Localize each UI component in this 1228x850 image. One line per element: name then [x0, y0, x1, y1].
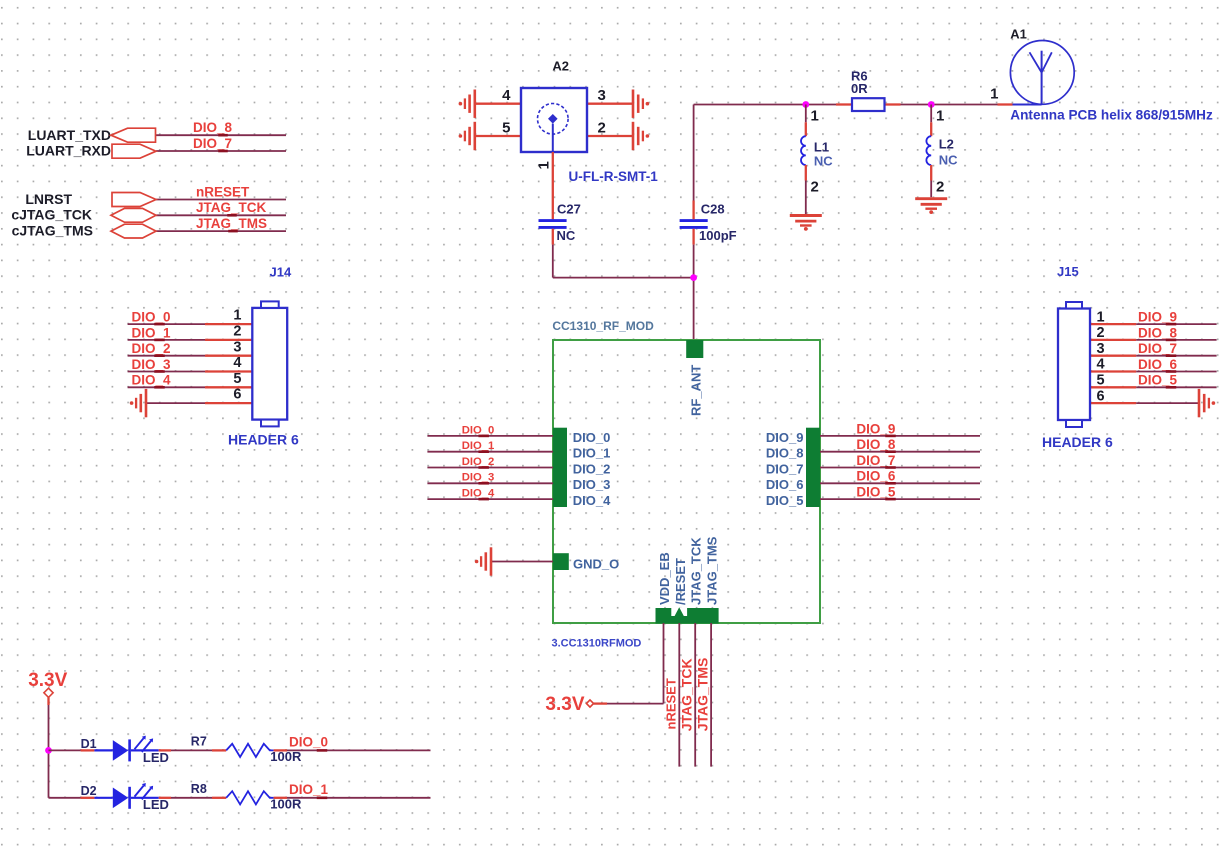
svg-text:DIO_0: DIO_0 — [573, 430, 611, 445]
svg-text:5: 5 — [502, 120, 510, 137]
svg-text:5: 5 — [233, 371, 241, 387]
svg-text:DIO_3: DIO_3 — [462, 472, 495, 484]
svg-text:U-FL-R-SMT-1: U-FL-R-SMT-1 — [569, 169, 659, 184]
svg-text:NC: NC — [557, 228, 576, 243]
svg-text:DIO_9: DIO_9 — [856, 421, 895, 436]
svg-text:HEADER 6: HEADER 6 — [1042, 434, 1113, 450]
svg-text:JTAG_TMS: JTAG_TMS — [196, 216, 267, 231]
svg-text:RF_ANT: RF_ANT — [689, 365, 704, 416]
svg-text:LUART_RXD: LUART_RXD — [26, 143, 111, 159]
svg-text:NC: NC — [814, 153, 833, 168]
svg-text:100R: 100R — [270, 749, 302, 764]
svg-text:R7: R7 — [191, 735, 207, 749]
svg-text:1: 1 — [536, 161, 553, 169]
svg-text:JTAG_TCK: JTAG_TCK — [678, 658, 694, 731]
svg-text:D2: D2 — [81, 784, 97, 798]
svg-text:DIO_7: DIO_7 — [766, 461, 804, 476]
svg-text:DIO_7: DIO_7 — [1138, 341, 1177, 356]
svg-text:cJTAG_TMS: cJTAG_TMS — [12, 223, 93, 239]
svg-text:3: 3 — [598, 87, 606, 104]
svg-text:J15: J15 — [1057, 264, 1079, 279]
svg-text:DIO_3: DIO_3 — [573, 477, 611, 492]
svg-text:/RESET: /RESET — [673, 558, 688, 605]
svg-text:cJTAG_TCK: cJTAG_TCK — [11, 207, 92, 223]
svg-text:JTAG_TMS: JTAG_TMS — [705, 536, 720, 605]
svg-text:L1: L1 — [814, 139, 829, 154]
svg-text:LNRST: LNRST — [25, 191, 72, 207]
svg-text:GND_O: GND_O — [573, 556, 619, 571]
svg-text:2: 2 — [598, 120, 606, 137]
svg-text:DIO_5: DIO_5 — [1138, 373, 1178, 388]
svg-text:DIO_0: DIO_0 — [289, 735, 328, 750]
svg-text:DIO_5: DIO_5 — [766, 493, 804, 508]
svg-text:4: 4 — [1097, 357, 1105, 373]
svg-text:DIO_4: DIO_4 — [462, 488, 495, 500]
svg-text:DIO_7: DIO_7 — [856, 453, 895, 468]
svg-text:1: 1 — [936, 107, 944, 124]
svg-text:D1: D1 — [81, 737, 97, 751]
svg-text:JTAG_TCK: JTAG_TCK — [689, 537, 704, 605]
svg-text:L2: L2 — [939, 136, 954, 151]
svg-text:5: 5 — [1097, 373, 1105, 389]
svg-text:CC1310_RF_MOD: CC1310_RF_MOD — [552, 319, 654, 333]
svg-text:2: 2 — [1097, 325, 1105, 341]
svg-text:DIO_2: DIO_2 — [132, 341, 171, 356]
svg-text:nRESET: nRESET — [196, 184, 250, 199]
svg-text:4: 4 — [233, 355, 241, 371]
svg-text:A1: A1 — [1010, 27, 1027, 42]
svg-text:A2: A2 — [552, 58, 569, 73]
svg-text:LED: LED — [143, 750, 169, 765]
svg-text:3.CC1310RFMOD: 3.CC1310RFMOD — [552, 637, 642, 649]
svg-text:VDD_EB: VDD_EB — [657, 552, 672, 605]
svg-text:DIO_6: DIO_6 — [856, 469, 896, 484]
svg-text:DIO_9: DIO_9 — [766, 430, 804, 445]
svg-text:LUART_TXD: LUART_TXD — [28, 127, 111, 143]
svg-text:DIO_8: DIO_8 — [856, 437, 896, 452]
svg-text:0R: 0R — [851, 81, 868, 96]
svg-text:DIO_8: DIO_8 — [766, 446, 804, 461]
svg-text:DIO_5: DIO_5 — [856, 485, 896, 500]
svg-text:C27: C27 — [557, 202, 581, 217]
svg-text:DIO_2: DIO_2 — [462, 456, 495, 468]
svg-text:DIO_8: DIO_8 — [193, 120, 233, 135]
svg-text:DIO_0: DIO_0 — [132, 310, 171, 325]
svg-text:DIO_1: DIO_1 — [289, 782, 329, 797]
svg-text:3.3V: 3.3V — [545, 694, 584, 715]
svg-text:100R: 100R — [270, 796, 302, 811]
svg-text:6: 6 — [1097, 388, 1105, 404]
svg-text:R8: R8 — [191, 782, 207, 796]
svg-text:J14: J14 — [270, 265, 292, 280]
svg-text:DIO_8: DIO_8 — [1138, 325, 1178, 340]
svg-text:DIO_2: DIO_2 — [573, 461, 611, 476]
svg-text:DIO_1: DIO_1 — [573, 446, 611, 461]
svg-text:4: 4 — [502, 87, 511, 104]
svg-text:1: 1 — [990, 85, 998, 102]
svg-text:DIO_0: DIO_0 — [462, 424, 495, 436]
svg-text:JTAG_TMS: JTAG_TMS — [694, 658, 710, 732]
svg-text:2: 2 — [936, 178, 944, 195]
svg-text:1: 1 — [1097, 309, 1105, 325]
svg-text:2: 2 — [811, 178, 819, 195]
svg-text:DIO_4: DIO_4 — [132, 373, 172, 388]
svg-text:Antenna PCB helix 868/915MHz: Antenna PCB helix 868/915MHz — [1010, 107, 1213, 122]
svg-text:2: 2 — [233, 324, 241, 340]
svg-text:nRESET: nRESET — [663, 678, 678, 729]
svg-text:DIO_7: DIO_7 — [193, 136, 232, 151]
svg-text:DIO_6: DIO_6 — [1138, 357, 1178, 372]
svg-text:DIO_4: DIO_4 — [573, 493, 611, 508]
svg-text:1: 1 — [233, 308, 241, 324]
svg-text:DIO_1: DIO_1 — [132, 325, 172, 340]
svg-text:3: 3 — [1097, 341, 1105, 357]
svg-text:1: 1 — [811, 107, 819, 124]
svg-text:6: 6 — [233, 387, 241, 403]
svg-text:JTAG_TCK: JTAG_TCK — [196, 200, 267, 215]
svg-text:LED: LED — [143, 797, 169, 812]
svg-text:HEADER 6: HEADER 6 — [228, 431, 299, 447]
svg-text:100pF: 100pF — [699, 228, 737, 243]
svg-text:DIO_1: DIO_1 — [462, 440, 495, 452]
svg-text:DIO_9: DIO_9 — [1138, 310, 1177, 325]
svg-text:3: 3 — [233, 339, 241, 355]
svg-text:NC: NC — [939, 152, 958, 167]
svg-text:DIO_6: DIO_6 — [766, 477, 804, 492]
svg-text:C28: C28 — [701, 202, 725, 217]
svg-text:DIO_3: DIO_3 — [132, 357, 172, 372]
